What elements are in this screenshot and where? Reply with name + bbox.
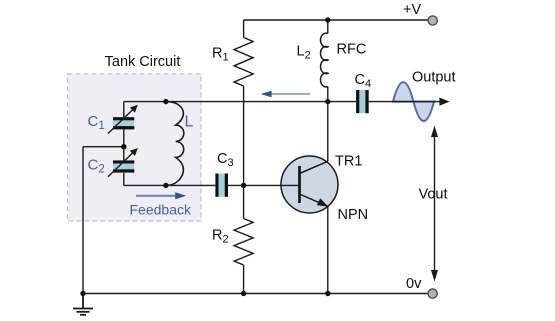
svg-text:L2: L2 [297,44,311,62]
tank circuit dashed box [68,74,202,221]
wire left branch vertical [82,147,84,294]
svg-text:R2: R2 [212,228,229,246]
wire R2 bottom lead [243,265,245,294]
inductor L2 RFC [321,33,328,87]
wire bottom rail [83,293,428,295]
junction base node [241,183,246,188]
output arrowhead [439,98,449,106]
wire collector lead [327,102,329,162]
svg-text:Feedback: Feedback [130,202,192,218]
capacitor C2 [108,148,138,177]
junction L top [163,99,168,104]
svg-text:RFC: RFC [337,42,367,58]
resistor R2 [234,219,253,266]
resistor R1 [234,38,253,87]
junction RFC bottom [325,99,330,104]
capacitor C1 [108,105,138,134]
capacitor C3 [215,174,228,197]
wire C3 to base [228,184,300,186]
svg-text:+V: +V [403,2,421,18]
svg-text:0v: 0v [406,276,422,292]
svg-text:C3: C3 [217,151,234,169]
terminal +V [428,16,437,25]
svg-text:Output: Output [412,70,456,86]
transistor TR1 body [281,156,338,213]
transistor emitter arrowhead [317,198,329,206]
wire through sine [392,101,436,103]
svg-text:TR1: TR1 [335,154,362,170]
wire C1 top lead [123,102,125,118]
inductor L [166,102,184,186]
wire RFC bottom lead [327,87,329,102]
wire R2 top lead [243,185,245,218]
transistor emitter diagonal [300,194,328,206]
wire C1-C2 middle [123,129,125,160]
transistor collector diagonal [300,161,328,173]
junction L bottom [163,183,168,188]
capacitor C4 [356,90,369,113]
svg-text:L: L [185,114,194,131]
output sine wave [393,82,434,121]
wire top rail [244,19,429,21]
wire R1 top lead [243,20,245,38]
svg-text:Tank Circuit: Tank Circuit [105,54,181,70]
feedback arrow (blue, pointing right) [136,192,186,199]
wire left branch horizontal [83,146,124,148]
transistor base bar [298,166,301,203]
Vout measurement arrow [431,126,438,282]
svg-text:NPN: NPN [338,207,369,223]
junction C1-C2 mid [121,144,126,149]
svg-text:Vout: Vout [419,187,448,203]
junction R2 bottom [241,291,246,296]
terminal 0v [428,289,437,298]
wire R1 bottom lead to base node (crosses mid wire) [243,86,245,185]
wire RFC top lead [327,20,329,34]
wire tank bottom to C3 [124,184,216,186]
wire emitter lead [327,206,329,293]
wire C4 to output [369,101,441,103]
signal arrow (blue, pointing left) [261,91,310,98]
svg-text:R1: R1 [212,46,229,64]
wire C2 bottom lead [123,173,125,186]
svg-text:C4: C4 [355,72,372,90]
ground [73,294,93,315]
junction emitter bottom [325,291,330,296]
wire main mid rail [124,101,356,103]
junction ground [80,291,85,296]
junction RFC top [325,17,330,22]
